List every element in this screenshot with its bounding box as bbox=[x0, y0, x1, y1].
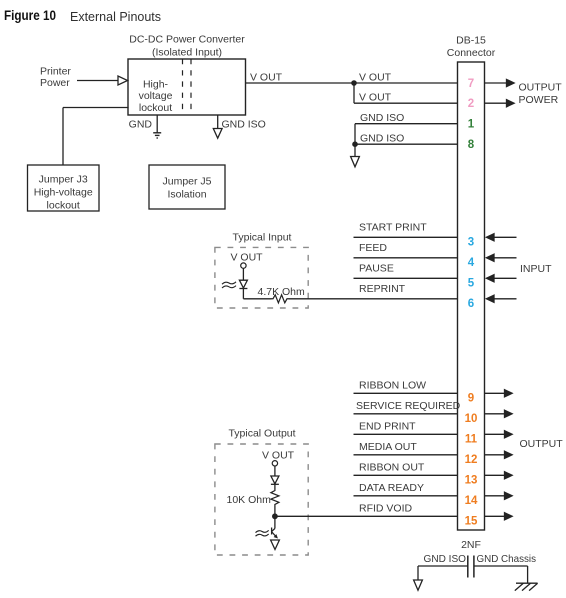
input arrow pin 5 bbox=[486, 275, 516, 282]
svg-text:END PRINT: END PRINT bbox=[359, 421, 416, 433]
OUTPUT label bbox=[520, 438, 564, 450]
DB-15 connector label bbox=[447, 35, 496, 60]
output arrow pin 14 bbox=[485, 492, 513, 499]
output arrow pin 9 bbox=[485, 390, 513, 397]
svg-text:RIBBON OUT: RIBBON OUT bbox=[359, 462, 425, 474]
svg-text:13: 13 bbox=[465, 474, 478, 486]
typical input label bbox=[233, 231, 292, 243]
diode D2 bbox=[271, 476, 279, 484]
wire GND ISO stub bbox=[217, 115, 219, 129]
svg-text:Typical Output: Typical Output bbox=[228, 428, 295, 440]
svg-text:Power: Power bbox=[40, 77, 70, 89]
typical output dashed box bbox=[215, 444, 308, 555]
pin 12 bbox=[465, 454, 478, 466]
resistor R1 4.7K bbox=[272, 295, 289, 303]
svg-text:High-: High- bbox=[143, 79, 169, 91]
ground ISO symbol (open arrow) bbox=[414, 580, 423, 590]
wire resistor to node bbox=[274, 506, 276, 516]
typical output label bbox=[228, 428, 295, 440]
svg-text:12: 12 bbox=[465, 454, 478, 466]
pin 10 bbox=[465, 413, 478, 425]
svg-text:GND ISO: GND ISO bbox=[424, 553, 467, 565]
svg-text:6: 6 bbox=[468, 298, 474, 310]
wire data ready bbox=[354, 495, 458, 497]
pin 5 bbox=[468, 277, 475, 289]
input arrow pin 4 bbox=[486, 254, 516, 261]
svg-text:14: 14 bbox=[465, 495, 478, 507]
high-voltage lockout text bbox=[139, 79, 173, 114]
svg-text:OUTPUT: OUTPUT bbox=[520, 438, 564, 450]
wire ribbon out bbox=[354, 474, 458, 476]
jumper J5 box bbox=[149, 165, 225, 209]
wire V OUT drop bbox=[353, 83, 355, 103]
svg-text:POWER: POWER bbox=[519, 94, 559, 106]
MEDIA OUT label bbox=[359, 441, 417, 453]
svg-text:V OUT: V OUT bbox=[262, 449, 295, 461]
input arrowhead (open) bbox=[118, 76, 128, 85]
wire ribbon low bbox=[354, 392, 458, 394]
wire printer power bbox=[77, 80, 118, 82]
V OUT label pin 7 bbox=[359, 72, 392, 84]
svg-text:10: 10 bbox=[465, 413, 478, 425]
wire reprint to pin 6 bbox=[289, 298, 458, 300]
GND Chassis label bbox=[477, 553, 537, 565]
phototransistor Q1 bbox=[272, 528, 278, 538]
wire capacitor to chassis ground bbox=[474, 566, 528, 583]
svg-text:Typical Input: Typical Input bbox=[233, 231, 292, 243]
svg-text:PAUSE: PAUSE bbox=[359, 263, 394, 275]
jumper J5 text bbox=[162, 176, 211, 201]
END PRINT label bbox=[359, 421, 416, 433]
GND ISO label bbox=[222, 119, 266, 131]
svg-text:RFID VOID: RFID VOID bbox=[359, 503, 413, 515]
jumper J3 box bbox=[28, 165, 100, 211]
output arrow pin 12 bbox=[485, 451, 513, 458]
wire service required bbox=[354, 413, 458, 415]
output power arrow pin 7 bbox=[485, 79, 515, 86]
wire terminal to diode bbox=[274, 466, 276, 476]
wire terminal to LED bbox=[242, 268, 244, 280]
light emission squiggles bbox=[222, 282, 236, 288]
ground ISO symbol (open arrow) bbox=[351, 157, 360, 167]
wire GND ISO to pin 8 bbox=[355, 143, 458, 145]
PAUSE label bbox=[359, 263, 394, 275]
OUTPUT POWER label bbox=[519, 82, 563, 107]
svg-text:START PRINT: START PRINT bbox=[359, 222, 427, 234]
SERVICE REQUIRED label bbox=[356, 400, 461, 412]
svg-text:7: 7 bbox=[468, 78, 474, 90]
FEED label bbox=[359, 242, 387, 254]
wire diode to resistor bbox=[274, 484, 276, 489]
svg-text:RIBBON LOW: RIBBON LOW bbox=[359, 380, 426, 392]
wire converter to jumper J3 bbox=[63, 108, 129, 166]
RFID VOID label bbox=[359, 503, 413, 515]
svg-text:lockout: lockout bbox=[139, 102, 172, 114]
wire end print bbox=[354, 433, 458, 435]
svg-text:DC-DC Power Converter: DC-DC Power Converter bbox=[129, 34, 245, 46]
wire feed bbox=[354, 257, 458, 259]
pin 2 bbox=[468, 98, 474, 110]
svg-text:DB-15: DB-15 bbox=[456, 35, 486, 47]
START PRINT label bbox=[359, 222, 427, 234]
svg-text:10K Ohm: 10K Ohm bbox=[227, 494, 272, 506]
svg-text:1: 1 bbox=[468, 119, 475, 131]
chassis ground symbol bbox=[515, 583, 538, 590]
light squiggles bbox=[256, 530, 269, 536]
node junction GND ISO bbox=[352, 141, 358, 147]
wire V OUT to pin 2 bbox=[354, 102, 458, 104]
pin 9 bbox=[468, 392, 474, 404]
pin 15 bbox=[465, 515, 478, 527]
svg-text:OUTPUT: OUTPUT bbox=[519, 82, 563, 94]
V OUT label typical input bbox=[231, 252, 264, 264]
svg-text:Printer: Printer bbox=[40, 66, 71, 78]
svg-text:GND ISO: GND ISO bbox=[360, 133, 404, 145]
V OUT label typical output bbox=[262, 449, 295, 461]
svg-text:MEDIA OUT: MEDIA OUT bbox=[359, 441, 417, 453]
svg-text:5: 5 bbox=[468, 277, 475, 289]
wire start print bbox=[354, 236, 458, 238]
svg-text:Connector: Connector bbox=[447, 47, 496, 59]
jumper J3 text bbox=[34, 174, 93, 212]
svg-text:V OUT: V OUT bbox=[359, 92, 392, 104]
pin 1 bbox=[468, 119, 475, 131]
svg-text:GND ISO: GND ISO bbox=[222, 119, 266, 131]
output arrow pin 10 bbox=[485, 410, 513, 417]
figure title bbox=[4, 8, 161, 24]
svg-text:2NF: 2NF bbox=[461, 539, 481, 551]
DC-DC power converter label bbox=[129, 34, 245, 59]
wire rfid void to pin 15 bbox=[275, 515, 458, 517]
svg-text:High-voltage: High-voltage bbox=[34, 187, 93, 199]
wire pause bbox=[354, 277, 458, 279]
wire capacitor to iso ground bbox=[418, 566, 468, 580]
svg-text:REPRINT: REPRINT bbox=[359, 283, 406, 295]
RIBBON LOW label bbox=[359, 380, 426, 392]
svg-text:Jumper J3: Jumper J3 bbox=[39, 174, 88, 186]
10K Ohm value label bbox=[227, 494, 272, 506]
svg-text:V OUT: V OUT bbox=[250, 72, 283, 84]
svg-text:FEED: FEED bbox=[359, 242, 387, 254]
DATA READY label bbox=[359, 482, 424, 494]
node junction RFID VOID bbox=[272, 513, 278, 519]
svg-text:GND Chassis: GND Chassis bbox=[477, 553, 537, 565]
terminal circle bbox=[272, 461, 277, 466]
GND ISO label pin 8 bbox=[360, 133, 404, 145]
output arrow pin 15 bbox=[485, 513, 513, 520]
svg-text:4: 4 bbox=[468, 257, 475, 269]
printer power label bbox=[40, 66, 71, 90]
wire V OUT converter to pin 7 bbox=[246, 82, 458, 84]
resistor R2 10K bbox=[271, 490, 279, 507]
svg-text:15: 15 bbox=[465, 515, 478, 527]
svg-text:GND ISO: GND ISO bbox=[360, 112, 404, 124]
GND ISO bottom label bbox=[424, 553, 467, 565]
wire GND ISO drop bbox=[354, 124, 356, 145]
svg-text:External Pinouts: External Pinouts bbox=[70, 10, 161, 24]
svg-text:9: 9 bbox=[468, 392, 474, 404]
ground ISO symbol (open arrow) bbox=[271, 540, 280, 550]
GND label bbox=[129, 119, 153, 131]
input arrow pin 6 bbox=[486, 295, 516, 302]
wire media out bbox=[354, 454, 458, 456]
pin 11 bbox=[465, 433, 478, 445]
INPUT label bbox=[520, 263, 552, 275]
RIBBON OUT label bbox=[359, 462, 425, 474]
ground ISO symbol (open arrow) bbox=[213, 129, 222, 139]
wire LED to resistor bbox=[243, 289, 271, 299]
svg-text:voltage: voltage bbox=[139, 90, 173, 102]
svg-text:2: 2 bbox=[468, 98, 474, 110]
V OUT label pin 2 bbox=[359, 92, 392, 104]
svg-text:Jumper J5: Jumper J5 bbox=[162, 176, 211, 188]
svg-text:11: 11 bbox=[465, 433, 478, 445]
svg-text:INPUT: INPUT bbox=[520, 263, 552, 275]
output arrow pin 11 bbox=[485, 431, 513, 438]
REPRINT label bbox=[359, 283, 406, 295]
pin 14 bbox=[465, 495, 478, 507]
terminal circle bbox=[241, 263, 246, 268]
wire to iso ground bbox=[354, 144, 356, 156]
input arrow pin 3 bbox=[486, 234, 516, 241]
svg-text:SERVICE REQUIRED: SERVICE REQUIRED bbox=[356, 400, 461, 412]
node junction V OUT bbox=[351, 80, 357, 86]
svg-text:Figure 10: Figure 10 bbox=[4, 8, 56, 23]
pin 3 bbox=[468, 236, 474, 248]
wire node to phototransistor bbox=[274, 519, 276, 529]
pin 7 bbox=[468, 78, 474, 90]
DC-DC converter U1 box bbox=[128, 59, 246, 115]
wire GND stub bbox=[156, 115, 158, 133]
svg-text:8: 8 bbox=[468, 139, 475, 151]
svg-text:(Isolated Input): (Isolated Input) bbox=[152, 47, 222, 59]
pin 13 bbox=[465, 474, 478, 486]
pin 4 bbox=[468, 257, 475, 269]
pin 6 bbox=[468, 298, 474, 310]
output power arrow pin 2 bbox=[485, 100, 515, 107]
pin 8 bbox=[468, 139, 475, 151]
wire GND ISO pin 1 bbox=[355, 123, 458, 125]
GND ISO label pin 1 bbox=[360, 112, 404, 124]
svg-text:lockout: lockout bbox=[47, 200, 80, 212]
svg-text:V OUT: V OUT bbox=[359, 72, 392, 84]
svg-text:DATA READY: DATA READY bbox=[359, 482, 424, 494]
typical input dashed box bbox=[215, 247, 308, 308]
4.7K Ohm value label bbox=[258, 286, 306, 298]
capacitor C1 2NF bbox=[468, 556, 474, 578]
svg-text:Isolation: Isolation bbox=[167, 189, 206, 201]
isolation barrier dashed lines bbox=[183, 59, 192, 115]
optocoupler LED D1 bbox=[239, 280, 247, 288]
svg-text:V OUT: V OUT bbox=[231, 252, 264, 264]
output arrow pin 13 bbox=[485, 472, 513, 479]
DB-15 connector body bbox=[458, 62, 485, 530]
2NF value label bbox=[461, 539, 481, 551]
svg-text:3: 3 bbox=[468, 236, 474, 248]
svg-text:4.7K Ohm: 4.7K Ohm bbox=[258, 286, 306, 298]
V OUT label at converter bbox=[250, 72, 283, 84]
ground (earth) symbol bbox=[153, 133, 161, 138]
svg-text:GND: GND bbox=[129, 119, 153, 131]
